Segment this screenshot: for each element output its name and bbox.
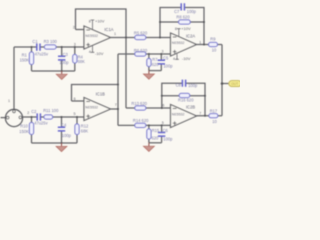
svg-text:+10V: +10V — [95, 19, 105, 24]
wire XLR pin3 to left edge — [1, 117, 7, 119]
capacitor C8 plates — [182, 80, 185, 87]
node IC1B loop top — [117, 84, 119, 86]
wire bottom input chain right of C2 to IC1B + — [41, 116, 84, 118]
wire R12 leads — [76, 117, 78, 143]
svg-text:C8: C8 — [176, 83, 182, 88]
node output join — [221, 82, 224, 85]
wire feed IC1A out down to R13 — [125, 38, 127, 109]
svg-text:620: 620 — [152, 135, 160, 140]
svg-text:7: 7 — [199, 112, 201, 116]
wire IC1A output to IC2A - input — [111, 37, 171, 39]
node IC2A minus — [159, 37, 161, 39]
wire ground rail top network — [32, 70, 75, 72]
wire R15 leads — [148, 125, 150, 142]
svg-text:150K: 150K — [19, 129, 29, 134]
node C5 top — [160, 53, 162, 55]
power -10V IC2A — [175, 54, 179, 59]
wire IC2A feedback R8 branch — [160, 21, 204, 23]
svg-text:8: 8 — [175, 27, 177, 31]
wire output rail vertical — [221, 45, 223, 116]
ground bottom network — [61, 143, 63, 146]
node R12 top — [76, 116, 78, 118]
node R8 left — [159, 21, 161, 23]
svg-text:IC1A: IC1A — [104, 27, 113, 32]
resistor R15 — [147, 129, 151, 139]
wire IC2B output through R17 — [197, 115, 223, 117]
svg-text:+10V: +10V — [181, 26, 191, 31]
resistor R12 — [75, 124, 79, 135]
node R8 right — [203, 21, 205, 23]
node R1 top — [31, 46, 33, 48]
svg-text:5: 5 — [162, 121, 164, 125]
wire C5 leads — [160, 54, 162, 71]
ground R7/C5 — [148, 71, 150, 74]
resistor R10 — [29, 123, 33, 135]
capacitor C4 plates — [58, 127, 65, 131]
svg-text:R14 620: R14 620 — [133, 118, 149, 123]
svg-text:C4: C4 — [61, 122, 67, 127]
svg-text:100p: 100p — [59, 60, 69, 65]
wire top input chain (right of C1) — [40, 46, 84, 48]
op-amp IC2A input marks — [173, 37, 177, 54]
port OUT — [229, 81, 242, 87]
svg-text:6: 6 — [162, 104, 164, 108]
svg-text:NE5532: NE5532 — [172, 41, 185, 45]
wire to OUT terminal — [222, 83, 229, 85]
connector body — [5, 109, 22, 126]
svg-text:6: 6 — [74, 97, 76, 101]
node R15 top — [148, 124, 150, 126]
svg-text:100p: 100p — [187, 9, 197, 14]
svg-text:R13 620: R13 620 — [131, 101, 147, 106]
svg-text:R8 620: R8 620 — [176, 15, 190, 20]
wire IC2A output through R9 — [197, 44, 223, 46]
op-amp IC1A input marks — [86, 30, 90, 47]
svg-text:150K: 150K — [20, 57, 30, 62]
capacitor C3 plates — [58, 56, 65, 60]
op-amp IC2B input marks — [173, 109, 177, 126]
resistor R14 — [135, 123, 146, 127]
ground R15/C6 — [148, 143, 150, 146]
resistor R3 — [44, 45, 56, 49]
wire C4 leads — [61, 117, 63, 143]
wire IC1A inverting input — [76, 29, 85, 31]
svg-text:R16 620: R16 620 — [178, 97, 194, 102]
wire feed IC1B out down to R14 chain — [117, 109, 119, 125]
node IC1A out — [125, 37, 127, 39]
svg-text:NE5532: NE5532 — [85, 34, 98, 38]
connector pin 3 — [6, 116, 9, 119]
resistor R13 — [135, 106, 146, 110]
op-amp IC1A — [84, 26, 111, 49]
node C6 top — [161, 124, 163, 126]
svg-text:C2: C2 — [31, 109, 37, 114]
wire IC1A feedback loop — [76, 9, 127, 38]
wire R14 chain to IC2B + input — [118, 124, 171, 126]
op-amp IC1B — [84, 98, 111, 121]
resistor R6 — [135, 52, 146, 56]
capacitor C2 plates — [37, 113, 40, 120]
node IC1B out — [117, 108, 119, 110]
capacitor C7 plates — [181, 3, 184, 10]
svg-text:100p: 100p — [163, 137, 173, 142]
wire R13 chain to IC2B - input — [126, 107, 171, 109]
svg-text:8: 8 — [89, 19, 91, 23]
wire IC1B inverting input — [72, 100, 85, 102]
svg-text:R17: R17 — [210, 109, 218, 114]
svg-text:R11 100: R11 100 — [43, 108, 59, 113]
svg-text:C7: C7 — [174, 9, 180, 14]
op-amp IC2A — [171, 33, 197, 56]
resistor R5 — [135, 35, 146, 39]
node R7 top — [148, 53, 150, 55]
wire IC2B feedback loop top (C8 branch) — [162, 83, 205, 116]
node IC2A out — [203, 44, 205, 46]
resistor R7 — [147, 59, 151, 67]
wire R6 chain to IC2A + input — [118, 53, 171, 55]
svg-text:R6 620: R6 620 — [134, 48, 148, 53]
svg-text:4: 4 — [89, 50, 91, 54]
svg-text:C1: C1 — [32, 39, 38, 44]
svg-text:68K: 68K — [81, 128, 89, 133]
ground top network — [61, 71, 63, 74]
connector pin 1 — [13, 110, 16, 113]
svg-text:3: 3 — [74, 42, 76, 46]
wire IC1B output — [111, 108, 119, 110]
svg-text:1: 1 — [114, 32, 116, 36]
node IC2B minus — [161, 107, 163, 109]
wire feed IC1B out up to R6 chain — [117, 54, 119, 109]
svg-text:5: 5 — [74, 112, 76, 116]
svg-text:620: 620 — [152, 62, 160, 67]
capacitor C1 plates — [37, 44, 40, 51]
svg-text:47u25v: 47u25v — [34, 121, 48, 126]
svg-text:47u25v: 47u25v — [35, 52, 49, 57]
svg-text:3: 3 — [162, 49, 164, 53]
op-amp IC1B input marks — [86, 102, 90, 119]
wire R15/C6 ground link — [149, 142, 162, 144]
svg-text:NE5532: NE5532 — [172, 113, 185, 117]
wire R10 leads — [31, 117, 33, 143]
node C3 top — [61, 46, 63, 48]
wire R1 leads — [31, 47, 33, 71]
node ground stub top network — [61, 70, 63, 72]
node R10 top — [31, 116, 33, 118]
svg-text:2: 2 — [27, 111, 29, 115]
svg-text:C3: C3 — [63, 52, 69, 57]
svg-text:NE5532: NE5532 — [85, 106, 98, 110]
svg-text:IC1B: IC1B — [96, 92, 105, 97]
svg-text:IC2A: IC2A — [186, 33, 195, 38]
svg-text:4: 4 — [173, 57, 175, 61]
wire C6 leads — [161, 125, 163, 142]
svg-text:100p: 100p — [62, 133, 72, 138]
power -10V IC1A — [91, 45, 95, 52]
resistor R11 — [44, 115, 53, 119]
resistor R4 — [73, 55, 77, 64]
svg-text:100p: 100p — [163, 64, 173, 69]
node R4 top — [74, 46, 76, 48]
svg-text:R5 620: R5 620 — [134, 30, 148, 35]
wire ground rail bottom network — [32, 142, 78, 144]
svg-text:IC2B: IC2B — [186, 104, 195, 109]
op-amp IC2B — [171, 105, 197, 128]
wire IC2B feedback R16 branch — [162, 95, 205, 97]
resistor R1 — [29, 52, 33, 65]
resistor R9 — [209, 42, 218, 46]
svg-text:10: 10 — [212, 47, 217, 52]
wire XLR pin2 to C2 — [22, 116, 37, 118]
power +10V IC1A — [91, 20, 95, 30]
svg-text:100p: 100p — [188, 83, 198, 88]
svg-text:R9: R9 — [210, 36, 216, 41]
power +10V IC2A — [177, 29, 181, 37]
svg-text:C6: C6 — [163, 128, 169, 133]
wire R7/C5 ground link — [149, 70, 161, 72]
wire XLR pin1 up to top chain — [13, 47, 15, 110]
resistor R8 — [179, 20, 191, 24]
node R16 left — [161, 95, 163, 97]
wire IC2A feedback loop top (C7 branch) — [160, 8, 204, 45]
svg-text:1: 1 — [8, 99, 10, 103]
svg-text:7: 7 — [115, 103, 117, 107]
node ground stub bottom network — [61, 142, 63, 144]
node R16 right — [204, 95, 206, 97]
svg-text:10: 10 — [212, 119, 217, 124]
resistor R16 — [179, 93, 190, 97]
svg-text:OUT: OUT — [231, 82, 238, 86]
resistor R17 — [209, 114, 218, 118]
svg-text:R3 100: R3 100 — [44, 39, 58, 44]
capacitor C5 plates — [158, 60, 165, 64]
svg-text:-10V: -10V — [95, 51, 104, 56]
svg-text:1: 1 — [199, 40, 201, 44]
svg-text:R15: R15 — [152, 128, 160, 133]
wire top input chain to IC1A + (left of C1) — [14, 46, 37, 48]
svg-text:2: 2 — [73, 26, 75, 30]
capacitor C6 plates — [158, 133, 165, 137]
svg-text:68K: 68K — [78, 59, 86, 64]
node C4 top — [61, 116, 63, 118]
wire IC1B feedback loop — [72, 85, 119, 102]
svg-text:-10V: -10V — [182, 56, 191, 61]
wire C3 leads — [61, 47, 63, 71]
wire R7 leads — [148, 54, 150, 71]
svg-text:C5: C5 — [163, 55, 169, 60]
connector pin 2 — [19, 116, 22, 119]
wire R4 leads — [74, 47, 76, 71]
node IC2B out — [204, 115, 206, 117]
